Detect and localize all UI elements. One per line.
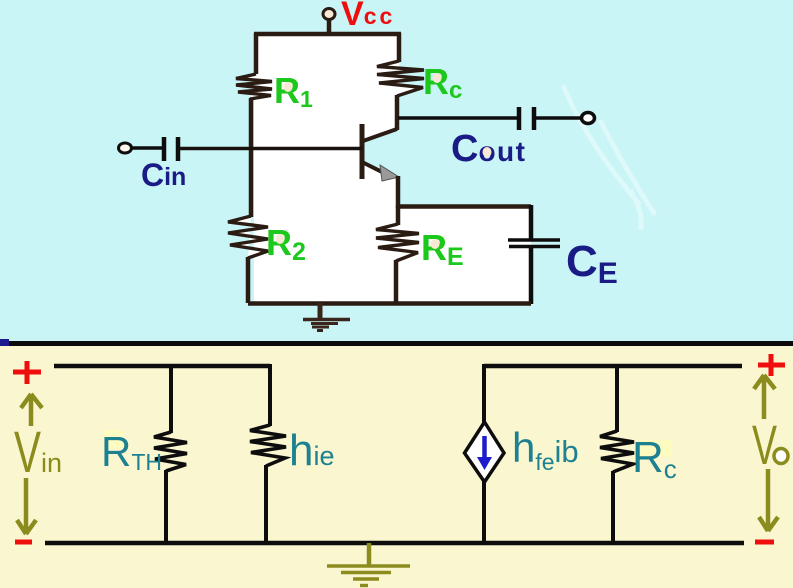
wire: left branch middle (249, 98, 254, 217)
wire: CE branch upper (529, 205, 534, 240)
ground (top circuit) (303, 303, 350, 331)
current source hfe*ib diamond (465, 422, 505, 482)
white loop A (top-left mesh fill) (254, 33, 399, 148)
cream fill artifact in R1 (284, 82, 293, 92)
wire: RE branch upper (396, 206, 401, 225)
top wire (Vcc rail) (254, 32, 401, 37)
Vcc terminal circle (323, 9, 335, 20)
Vo up arrow (754, 375, 775, 419)
wire: left branch lower (246, 257, 251, 303)
cream fill artifact in RE (431, 239, 440, 249)
bottom background (0, 345, 793, 588)
plus sign (input) (13, 361, 41, 384)
input top wire (54, 364, 270, 369)
resistor hie (250, 425, 286, 466)
white loop B (lower-left mesh fill) (254, 148, 398, 303)
Vo subscript o circle (774, 449, 788, 464)
wire: terminal to Cin (131, 146, 163, 150)
wire: left branch upper (254, 33, 259, 74)
hie branch wire lower (264, 465, 268, 543)
wire: Cin to base (180, 147, 362, 151)
current source branch wire upper (482, 364, 486, 423)
RTH branch wire lower (164, 470, 168, 543)
current source arrow (blue, down) (482, 436, 487, 460)
top background (0, 0, 793, 345)
output terminal circle (582, 113, 595, 124)
blue tick at left edge of divider (0, 339, 9, 346)
resistor Rc (bottom) (600, 431, 634, 472)
wire: RE branch lower (394, 260, 399, 304)
minus sign (input) (15, 540, 32, 545)
current source branch wire lower (482, 481, 486, 543)
transistor Q1 emitter arrowhead (380, 165, 399, 181)
wire: emitter vertical (396, 176, 401, 208)
Rc branch wire lower (611, 471, 615, 543)
ground (bottom circuit) (327, 543, 410, 586)
cream fill artifact in Rc top (433, 73, 442, 83)
svg-text:Vcc: Vcc (341, 0, 395, 33)
wire: collector vertical (395, 95, 400, 130)
minus sign (output) (755, 540, 774, 545)
svg-text:V: V (752, 413, 777, 476)
Vo down arrow (759, 469, 778, 531)
wire: emitter to CE branch (398, 204, 531, 209)
bottom common wire (45, 541, 744, 546)
capacitor Cout plates (519, 107, 534, 130)
bottom wire of top circuit (248, 301, 531, 306)
resistor RTH (154, 432, 187, 471)
resistor Rc (top) (377, 61, 424, 96)
Vin up arrow (21, 394, 42, 426)
input terminal circle (119, 143, 132, 153)
capacitor Cin plates (164, 137, 178, 161)
transistor Q1 collector lead (363, 129, 397, 141)
capacitor CE plates (508, 240, 560, 247)
RTH branch wire upper (169, 364, 173, 433)
wire: collector to Cout (398, 116, 517, 120)
resistor R2 (228, 216, 268, 258)
transistor Q1 emitter lead (362, 162, 386, 174)
wire: Cout to output terminal (536, 116, 582, 120)
hie branch wire upper (268, 364, 272, 426)
white loop C (RE/CE mesh fill) (398, 207, 531, 303)
wire: right branch upper (397, 33, 402, 62)
highlight blob behind RTH (104, 430, 124, 448)
svg-text:Cin: Cin (141, 157, 186, 193)
Vcc stub (327, 19, 332, 34)
Vin down arrow (17, 478, 36, 534)
resistor RE (376, 224, 419, 261)
plus sign (output) (758, 354, 785, 376)
Rc branch wire upper (615, 364, 619, 432)
cream fill artifact in R2 (276, 234, 285, 244)
highlight blob behind Rc (640, 440, 672, 457)
cream fill artifact in Cout o (483, 147, 492, 157)
output top wire (484, 364, 742, 369)
transistor Q1 base bar (360, 124, 365, 179)
ghost scribble artifact (563, 85, 655, 230)
divider line (0, 341, 793, 346)
resistor R1 (236, 74, 272, 99)
wire: CE branch lower (529, 248, 534, 304)
